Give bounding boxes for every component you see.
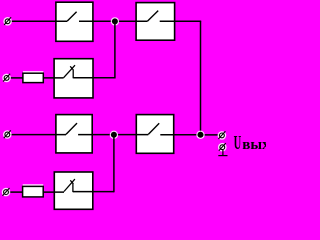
node A (junction dot, top) xyxy=(111,17,119,25)
wire: terminal 4 to resistor R2 xyxy=(9,191,24,193)
contact box K5 (bottom group, lower, fed by resistor R2) xyxy=(54,172,93,209)
switch S6 blade (open contact in K6) xyxy=(148,123,159,134)
wire: R2 to switch S5 left contact xyxy=(43,191,64,193)
switch S2 fixed contact riser xyxy=(72,70,74,79)
wire: S3 right contact to top-right corner xyxy=(160,20,202,22)
wire: vertical from K3 output down to node B xyxy=(200,21,202,135)
switch S2 blade with return tick (contact in K2) xyxy=(64,65,75,78)
resistor R1 xyxy=(23,72,43,83)
wire: vertical up from K2 output to node A xyxy=(114,21,116,78)
wire: terminal 3 to switch S4 left contact xyxy=(10,134,67,136)
terminal X1 (top input) xyxy=(3,17,12,26)
switch S3 blade (open contact in K3) xyxy=(148,11,159,22)
wire: S6 right contact to node B xyxy=(160,134,200,136)
switch S1 blade (open contact in K1) xyxy=(67,12,76,21)
contact box K3 (top-right) xyxy=(136,3,175,41)
terminal X3 (third input) xyxy=(3,130,12,139)
terminal X6 (output, lower, with stand) xyxy=(218,143,228,156)
wire: node B to output terminal xyxy=(201,134,220,136)
wire: terminal 1 to switch S1 left contact xyxy=(10,20,68,22)
svg-text:U: U xyxy=(234,133,242,154)
switch S5 fixed contact riser xyxy=(72,184,74,192)
node B (junction dot, right) xyxy=(196,131,204,139)
label Uвых (output voltage) xyxy=(234,133,271,154)
contact box K1 (top-left) xyxy=(56,2,93,41)
wire: S4 right contact through node C to switch S6 left contact xyxy=(78,134,148,136)
terminal X2 (second input) xyxy=(2,74,11,83)
contact box K4 (bottom group, upper) xyxy=(56,115,92,153)
switch S4 blade (open contact in K4) xyxy=(66,123,77,134)
resistor R2 xyxy=(23,185,44,197)
contact box K6 (bottom-right) xyxy=(136,115,173,154)
wire: vertical up from K5 output to node C xyxy=(113,135,115,193)
wire: S2 right contact out of K2 to riser corner xyxy=(73,77,115,79)
wire: R1 to switch S2 left contact xyxy=(43,77,63,79)
node C (junction dot, bottom group) xyxy=(110,131,118,139)
terminal X4 (fourth input) xyxy=(2,188,11,197)
wire: S1 right contact through node A to switch S3 left contact xyxy=(79,20,148,22)
switch S5 blade with return tick (contact in K5) xyxy=(64,179,75,191)
svg-text:вых: вых xyxy=(242,137,266,153)
contact box K2 (mid-left, fed by resistor R1) xyxy=(54,59,93,98)
wire: terminal 2 to resistor R1 xyxy=(10,77,24,79)
terminal X5 (output, upper) xyxy=(218,131,227,140)
wire: S5 right contact out of K5 to riser corner xyxy=(73,191,114,193)
